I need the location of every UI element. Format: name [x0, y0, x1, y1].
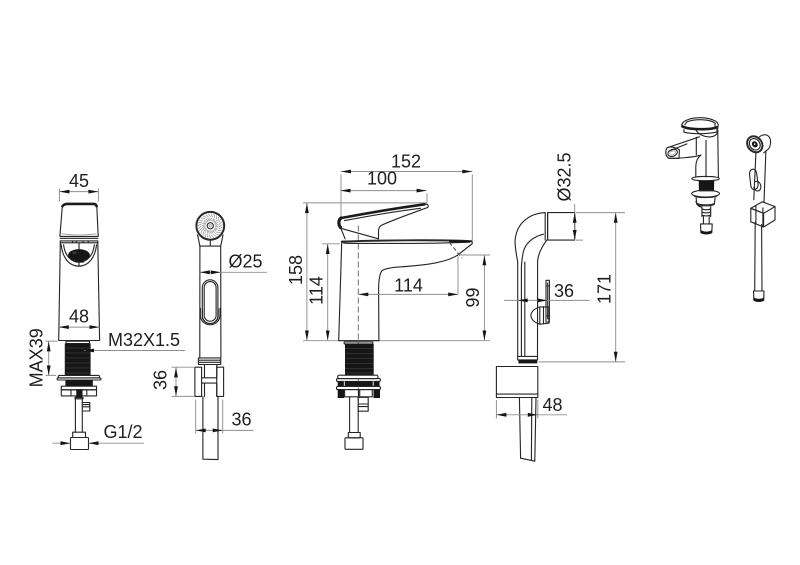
3d faucet lever underside — [684, 128, 718, 137]
trigger lower bulge — [200, 308, 220, 325]
svg-text:45: 45 — [69, 171, 89, 191]
svg-text:M32X1.5: M32X1.5 — [108, 330, 180, 350]
dimension 100 — [341, 169, 428, 204]
svg-text:36: 36 — [151, 370, 171, 390]
3d sprayer handle — [754, 151, 766, 202]
label M32X1.5 with leader — [84, 330, 185, 352]
mixer locking nut — [337, 381, 381, 398]
bracket clip side view — [531, 280, 550, 324]
sprayer holder bracket front — [195, 365, 224, 397]
dimension 36 horizontal for bracket — [196, 400, 254, 434]
sprayer handle end cap side view — [518, 356, 538, 363]
3d faucet aerator at spout tip — [667, 148, 679, 158]
svg-text:Ø32.5: Ø32.5 — [555, 152, 575, 201]
dimension 36 side view — [504, 281, 590, 303]
svg-text:158: 158 — [286, 255, 306, 285]
svg-text:36: 36 — [232, 409, 252, 429]
label G1/2 with arrows — [53, 422, 145, 445]
spout arc on body — [61, 243, 96, 266]
3d faucet lever plate — [682, 118, 718, 130]
connection rod of left faucet — [75, 399, 89, 432]
washers under left faucet shank — [57, 375, 101, 380]
svg-text:114: 114 — [306, 276, 326, 305]
trigger slot oval — [202, 280, 218, 324]
svg-text:114: 114 — [394, 275, 423, 295]
supply tube side view — [519, 398, 536, 462]
washers under mixer shank — [337, 375, 381, 381]
aerator dark oval — [68, 249, 90, 263]
wall holder block side view — [496, 367, 537, 398]
dimension 45 with extension lines — [59, 171, 98, 202]
faucet body (front view) — [59, 241, 100, 341]
svg-text:48: 48 — [543, 395, 563, 415]
threaded shank of left faucet — [65, 341, 91, 375]
sprayer supply tube — [203, 396, 218, 459]
sprayer handle end cap — [198, 358, 220, 365]
3d faucet washer and locknut — [692, 190, 720, 207]
sprayer elbow curve — [515, 213, 547, 357]
dimension 36 vertical for bracket — [151, 367, 194, 396]
3d sprayer trigger — [750, 169, 761, 191]
3d sprayer hose end fitting — [754, 291, 765, 302]
mixer connection rod — [350, 397, 369, 433]
3d faucet base — [692, 176, 720, 180]
3d faucet body and spout — [666, 128, 719, 177]
mixer G1/2 end fitting — [345, 433, 363, 450]
dimension 114 vertical — [306, 244, 340, 341]
threaded shank of mixer — [344, 342, 374, 375]
svg-text:171: 171 — [595, 274, 615, 304]
dimension diameter 25 — [200, 251, 267, 274]
sprayer head circle with spray face — [196, 212, 224, 240]
mixer lever handle — [339, 204, 428, 239]
3d sprayer head — [744, 133, 771, 155]
dimension 171 — [539, 213, 626, 362]
mixer spout underside curve — [379, 255, 458, 340]
mixer body top surface — [342, 240, 472, 243]
3d faucet supply stem — [701, 207, 713, 234]
dimension 99 — [459, 255, 490, 341]
mixer body column — [339, 243, 380, 341]
3d sprayer hose — [755, 222, 762, 291]
dimension 114 horizontal — [358, 256, 458, 296]
extension line bottom of mixer — [303, 340, 490, 342]
lower thread and locknut of left faucet — [61, 380, 96, 399]
dimension 152 — [341, 151, 472, 241]
dimension diameter 32.5 — [555, 152, 625, 240]
dimension 48 inside body — [59, 307, 100, 330]
G1/2 end fitting of left faucet — [71, 432, 89, 449]
3d sprayer bracket box — [751, 202, 775, 227]
sprayer handle body — [200, 246, 221, 358]
svg-text:G1/2: G1/2 — [104, 422, 143, 442]
extension line top for 158 — [303, 202, 427, 204]
mixer spout tip and spray face — [449, 241, 472, 258]
3d faucet threaded shank — [699, 181, 715, 192]
svg-text:36: 36 — [554, 281, 574, 301]
svg-text:99: 99 — [463, 287, 483, 307]
dimension 48 side view — [496, 395, 567, 419]
svg-text:48: 48 — [69, 307, 89, 327]
dimension MAX39 — [27, 328, 58, 387]
svg-text:MAX39: MAX39 — [27, 328, 47, 387]
sprayer head side view — [545, 213, 575, 241]
sprayer neck — [198, 235, 223, 246]
faucet handle (front view) — [60, 204, 98, 239]
svg-text:100: 100 — [367, 169, 397, 189]
mixer centerline — [357, 226, 359, 413]
svg-text:Ø25: Ø25 — [229, 251, 263, 271]
dimension 158 — [286, 203, 309, 340]
